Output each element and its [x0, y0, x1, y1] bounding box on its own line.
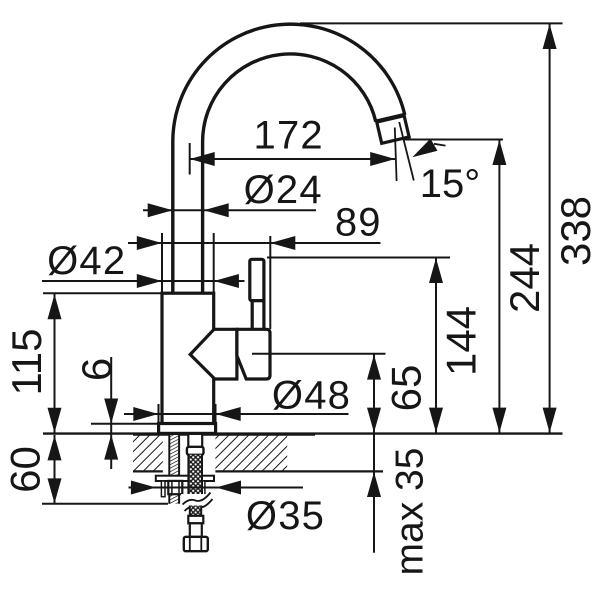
- svg-text:15°: 15°: [420, 162, 481, 206]
- handle body: [237, 329, 270, 379]
- svg-text:Ø48: Ø48: [272, 374, 351, 418]
- handle leader line: [252, 353, 386, 355]
- mounting washer plate: [156, 476, 214, 481]
- braided hose upper section: [188, 455, 202, 494]
- dim Ø24 line: [143, 209, 316, 211]
- dim max 35 text: [388, 448, 431, 576]
- dim 172 axis tick: [189, 143, 191, 175]
- braided hose lower section: [190, 506, 201, 517]
- Ø42 extension lines: [161, 233, 163, 292]
- dim 65 + max35 line: [373, 354, 375, 552]
- dim 6 line: [110, 357, 112, 469]
- svg-text:244: 244: [501, 243, 548, 313]
- svg-text:max 35: max 35: [388, 448, 431, 576]
- dim 89 line: [128, 242, 381, 244]
- deck hatch right part: [215, 435, 287, 470]
- hose break squiggle lower: [185, 499, 213, 511]
- dim 115 line: [54, 294, 56, 433]
- svg-text:338: 338: [552, 196, 599, 266]
- deck bottom edge left segment: [133, 470, 163, 472]
- hose ferrule: [187, 447, 204, 455]
- lever top extension line: [267, 257, 450, 259]
- dim Ø42 line: [42, 280, 245, 282]
- dim 244 text: [501, 243, 548, 313]
- svg-text:Ø42: Ø42: [47, 239, 126, 283]
- hose break squiggle upper: [183, 493, 211, 505]
- flange top extension line: [91, 423, 159, 425]
- deck top thick edge: [133, 433, 315, 436]
- dim 60 text: [1, 446, 48, 493]
- washer left screw: [161, 481, 165, 497]
- spout top extension line: [300, 22, 563, 24]
- svg-text:Ø24: Ø24: [244, 168, 323, 212]
- hose break gap: [181, 494, 214, 506]
- dim Ø48 line: [124, 413, 349, 415]
- dim 115 text: [3, 329, 50, 396]
- spout tube (gooseneck): [188, 39, 391, 297]
- svg-text:6: 6: [73, 358, 120, 381]
- cartridge pentagon: [190, 329, 237, 379]
- 15deg tilted leg: [399, 122, 414, 181]
- washer right screw: [201, 481, 205, 497]
- svg-text:Ø35: Ø35: [246, 494, 325, 538]
- deck hatch left part: [133, 435, 163, 470]
- svg-text:144: 144: [437, 306, 484, 376]
- dim 60 line: [54, 435, 56, 503]
- aerator tip: [377, 115, 410, 143]
- threaded mounting rod: [169, 433, 179, 504]
- hose collar: [188, 516, 203, 524]
- body top extension line: [43, 292, 163, 294]
- flexible hose upper white tube: [188, 433, 202, 447]
- dim 65 text: [382, 365, 429, 412]
- deck bottom edge right segment + max35 extension: [215, 470, 383, 472]
- hose hex nut: [184, 537, 208, 551]
- svg-text:89: 89: [335, 201, 382, 245]
- faucet body: [162, 293, 214, 427]
- dim 244 line: [498, 140, 500, 433]
- dim 338 text: [552, 196, 599, 266]
- deck top thin extension line: [43, 432, 563, 434]
- dim 144 text: [437, 306, 484, 376]
- handle lever stem upper: [250, 259, 264, 300]
- dim 6 text: [73, 358, 120, 381]
- svg-text:172: 172: [254, 113, 324, 157]
- rod bottom extension line: [42, 503, 168, 505]
- max35 up arrow: [367, 472, 381, 497]
- handle edge extension line: [269, 236, 271, 329]
- outlet extension line: [405, 139, 504, 141]
- 15deg leader arrow: [434, 144, 446, 146]
- base flange: [159, 424, 216, 434]
- svg-text:65: 65: [382, 365, 429, 412]
- dim 172 line: [190, 158, 396, 160]
- svg-text:115: 115: [3, 329, 50, 396]
- dim 144 line: [435, 258, 437, 433]
- dim 338 line: [549, 24, 551, 433]
- Ø48 extension lines: [158, 404, 160, 424]
- 15deg vertical leg: [395, 128, 397, 182]
- rod hex nut: [168, 481, 182, 494]
- dim Ø35 line: [129, 487, 304, 489]
- hose end tube: [190, 523, 202, 537]
- svg-text:60: 60: [1, 446, 48, 493]
- handle lever stem lower: [252, 301, 264, 330]
